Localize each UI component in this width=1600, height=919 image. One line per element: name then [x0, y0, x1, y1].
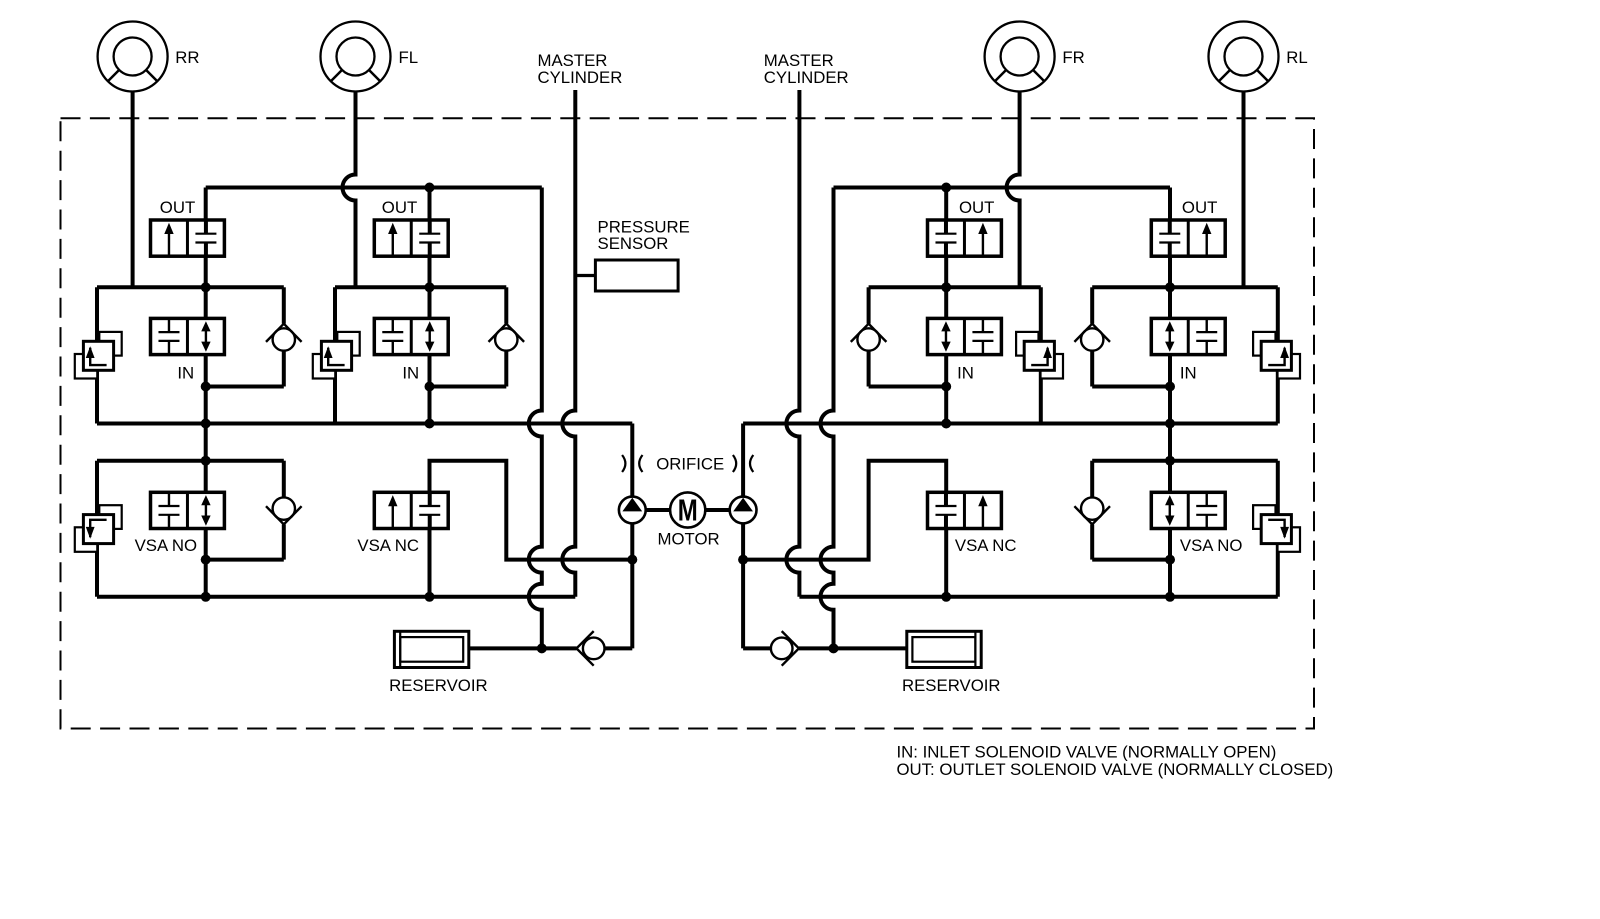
svg-text:OUT: OUT [160, 198, 195, 217]
svg-text:OUT: OUTLET SOLENOID VALVE (NO: OUT: OUTLET SOLENOID VALVE (NORMALLY CLO… [897, 760, 1334, 779]
svg-text:IN: IN [177, 364, 194, 383]
svg-text:CYLINDER: CYLINDER [764, 68, 849, 87]
svg-text:RR: RR [175, 48, 199, 67]
svg-text:RL: RL [1286, 48, 1307, 67]
svg-text:ORIFICE: ORIFICE [656, 454, 724, 473]
svg-text:OUT: OUT [382, 198, 417, 217]
svg-text:RESERVOIR: RESERVOIR [389, 676, 488, 695]
svg-text:CYLINDER: CYLINDER [538, 68, 623, 87]
svg-text:M: M [678, 493, 698, 528]
svg-text:IN: IN [1180, 364, 1197, 383]
svg-text:MOTOR: MOTOR [658, 530, 720, 549]
svg-text:IN: IN [402, 364, 419, 383]
svg-text:VSA NC: VSA NC [357, 536, 419, 555]
svg-text:FL: FL [399, 48, 419, 67]
svg-text:RESERVOIR: RESERVOIR [902, 676, 1001, 695]
svg-text:VSA NO: VSA NO [135, 536, 198, 555]
svg-text:OUT: OUT [959, 198, 994, 217]
svg-text:VSA NO: VSA NO [1180, 536, 1243, 555]
svg-text:IN: INLET SOLENOID VALVE (NORM: IN: INLET SOLENOID VALVE (NORMALLY OPEN) [897, 742, 1277, 761]
svg-text:OUT: OUT [1182, 198, 1217, 217]
svg-text:FR: FR [1062, 48, 1084, 67]
svg-text:VSA NC: VSA NC [955, 536, 1017, 555]
svg-text:IN: IN [957, 364, 974, 383]
svg-text:SENSOR: SENSOR [598, 234, 669, 253]
